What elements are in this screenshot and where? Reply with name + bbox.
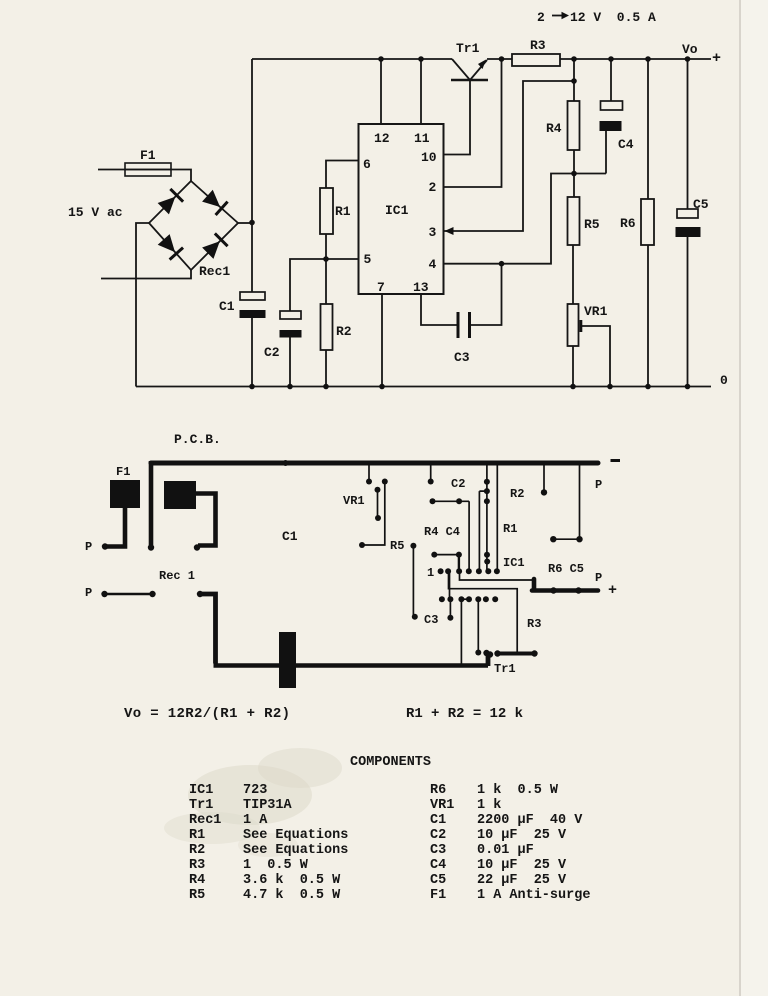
svg-text:6: 6	[363, 157, 371, 172]
svg-text:R2: R2	[510, 487, 524, 501]
svg-text:C1: C1	[430, 813, 446, 828]
node bridge+ junction	[249, 220, 255, 226]
node pin12 rail junction	[378, 56, 384, 62]
pcb pad P2 right	[149, 591, 155, 597]
svg-text:Rec1: Rec1	[189, 813, 221, 828]
svg-text:R1 + R2 = 12 k: R1 + R2 = 12 k	[406, 706, 523, 722]
label minus pcb	[611, 459, 621, 462]
pcb pad R5 left	[359, 542, 365, 548]
svg-text:10 μF 25 V: 10 μF 25 V	[477, 858, 567, 873]
svg-text:VR1: VR1	[430, 798, 454, 813]
bridge rectifier Rec1 diamond	[149, 181, 238, 270]
svg-text:1 k 0.5 W: 1 k 0.5 W	[477, 783, 559, 798]
wire R1 bottom to R2 top	[325, 234, 327, 304]
svg-text:1 A Anti-surge: 1 A Anti-surge	[477, 888, 590, 903]
svg-text:Tr1: Tr1	[189, 798, 213, 813]
wire pin3 to R3/R4 node	[444, 81, 575, 231]
wire pin10 to transistor base	[444, 80, 471, 155]
svg-text:Tr1: Tr1	[494, 662, 516, 676]
svg-text:10 μF 25 V: 10 μF 25 V	[477, 828, 567, 843]
wire left vertical from +rail to C1	[251, 59, 253, 292]
pcb line right P drop	[553, 463, 579, 539]
svg-text:P: P	[595, 478, 602, 492]
svg-text:IC1: IC1	[385, 203, 409, 218]
pcb pads plus trace	[550, 587, 556, 593]
pcb C1 strip	[279, 632, 296, 688]
pcb pad C2 bottom left	[430, 498, 436, 504]
svg-text:10: 10	[421, 150, 437, 165]
wire pin13 to C3 left	[421, 294, 457, 325]
node Vo junction	[685, 56, 691, 62]
pcb trace Rec1 to bottom rail	[200, 594, 216, 664]
svg-text:Rec 1: Rec 1	[159, 569, 195, 583]
fuse F1	[125, 163, 171, 176]
wire pin12 riser	[380, 59, 382, 124]
svg-text:R1: R1	[335, 204, 351, 219]
svg-text:15 V ac: 15 V ac	[68, 205, 123, 220]
svg-text:IC1: IC1	[189, 783, 213, 798]
svg-text:P: P	[595, 571, 602, 585]
resistor R3	[512, 54, 560, 66]
svg-text:Rec1: Rec1	[199, 264, 230, 279]
svg-text:2200 μF 40 V: 2200 μF 40 V	[477, 813, 583, 828]
svg-text:C1: C1	[282, 529, 298, 544]
svg-text:0: 0	[720, 373, 728, 388]
pcb line row2 to bottom rail	[460, 599, 462, 665]
pcb line R2 pad drop	[543, 463, 545, 492]
node C2 ground	[287, 384, 293, 390]
svg-text:12 V 0.5 A: 12 V 0.5 A	[570, 10, 656, 25]
resistor R2	[321, 304, 333, 350]
svg-text:R1: R1	[189, 828, 205, 843]
wire bridge right corner to C1 node	[238, 222, 252, 224]
junction dots	[249, 56, 690, 389]
pcb pad C2 top	[428, 479, 434, 485]
svg-text:2: 2	[537, 10, 545, 25]
svg-text:11: 11	[414, 131, 430, 146]
pcb pad P2 left	[101, 591, 107, 597]
svg-text:See Equations: See Equations	[243, 828, 348, 843]
wire 0 rail	[136, 386, 711, 388]
svg-text:13: 13	[413, 280, 429, 295]
pcb pad R2 hang	[541, 489, 547, 495]
svg-text:P: P	[85, 586, 92, 600]
diode D-bottomleft of Rec1	[157, 233, 184, 260]
wire R4 bottom to R5 top	[573, 150, 575, 197]
resistor R1	[320, 188, 333, 234]
node pin2 rail junction	[499, 56, 505, 62]
node R6 rail junction	[645, 56, 651, 62]
wire C5 risers	[687, 59, 689, 387]
svg-text:7: 7	[377, 280, 385, 295]
wire pin11 riser	[420, 59, 422, 124]
node C5 ground	[685, 384, 691, 390]
wire VR1 wiper to 0 rail	[582, 326, 610, 387]
svg-text:R3: R3	[189, 858, 205, 873]
svg-text:1 k: 1 k	[477, 798, 501, 813]
capacitor C4	[601, 101, 623, 110]
wire top +rail	[252, 58, 711, 60]
node VR1 ground	[570, 384, 576, 390]
pcb trace plus output	[532, 579, 598, 591]
wire pin6 to R1 top	[326, 161, 359, 189]
diode D-topright of Rec1	[201, 189, 228, 216]
svg-text:C4: C4	[430, 858, 446, 873]
wire AC input lower	[101, 270, 191, 279]
node pin11 rail junction	[418, 56, 424, 62]
pcb pads R2 column	[484, 479, 490, 485]
node pin7 ground	[379, 384, 385, 390]
node R3-R4 rail junction	[571, 56, 577, 62]
wire C4 top riser	[610, 59, 612, 101]
svg-text:VR1: VR1	[584, 304, 608, 319]
pcb component F1 square pad	[110, 480, 140, 508]
svg-text:4: 4	[429, 257, 437, 272]
svg-text:P: P	[85, 540, 92, 554]
pcb line row link	[449, 571, 451, 599]
pcb trace F1 to P pad	[106, 506, 125, 547]
wire pin4 to R4-R5 node	[444, 174, 607, 264]
svg-text:3: 3	[429, 225, 437, 240]
node C1 ground	[249, 384, 255, 390]
node wiper ground	[607, 384, 613, 390]
scan artifacts	[741, 0, 768, 996]
pcb line R2 column	[486, 463, 488, 571]
svg-text:C1: C1	[219, 299, 235, 314]
svg-text:COMPONENTS: COMPONENTS	[350, 755, 431, 770]
resistor R5	[568, 197, 580, 245]
node C4 rail junction	[608, 56, 614, 62]
svg-text:R4 C4: R4 C4	[424, 525, 460, 539]
wire R3 right / R4 top riser	[573, 59, 575, 101]
pcb pads IC row 2	[439, 596, 445, 602]
pcb line R1 drop	[496, 463, 498, 571]
svg-text:R5: R5	[390, 539, 404, 553]
wire bridge left corner to 0 rail	[136, 223, 149, 387]
pcb pad F1-P	[102, 543, 108, 549]
pcb pad Rec1 out	[197, 591, 203, 597]
svg-text:VR1: VR1	[343, 494, 365, 508]
pcb trace minus rail	[151, 461, 598, 466]
svg-text:C3: C3	[424, 613, 438, 627]
svg-text:1 A: 1 A	[243, 813, 268, 828]
svg-text:C4: C4	[618, 137, 634, 152]
pcb pad C3 left	[412, 614, 418, 620]
transistor Tr1	[451, 59, 488, 80]
pcb trace bottom rail	[214, 663, 489, 667]
wire pin2 riser to +rail	[444, 59, 502, 187]
pcb line VR1 right to R5 row	[362, 482, 385, 546]
svg-text:C3: C3	[430, 843, 446, 858]
svg-text:C2: C2	[451, 477, 465, 491]
wire R2 bottom to 0 rail	[325, 350, 327, 387]
capacitor C1	[240, 292, 265, 300]
pcb pad C2 bottom right	[456, 498, 462, 504]
wire C3 right to pin4 node	[471, 264, 502, 325]
pcb line step to R3	[449, 571, 518, 652]
pcb line C2 bottom pads	[433, 501, 470, 571]
svg-text:C2: C2	[430, 828, 446, 843]
wire C4 bottom drop	[605, 131, 607, 174]
wire VR1 bottom to 0 rail	[572, 346, 574, 387]
pcb trace bottom rail upturn to Tr1	[486, 654, 491, 667]
pcb trace Rec1 P link	[105, 593, 153, 596]
pcb pads Tr1	[475, 650, 481, 656]
pcb trace R3 link	[498, 652, 535, 656]
diode D-bottomright of Rec1	[201, 232, 228, 259]
svg-text:F1: F1	[116, 465, 130, 479]
pcb line row2 to Tr1 pad	[477, 599, 479, 652]
pcb square pad 2	[164, 481, 196, 509]
pcb pad right P pair	[550, 536, 556, 542]
svg-text:R3: R3	[530, 38, 546, 53]
svg-text:1: 1	[427, 566, 434, 580]
svg-text:R6 C5: R6 C5	[548, 562, 584, 576]
node R2 ground	[323, 384, 329, 390]
svg-text:C2: C2	[264, 345, 280, 360]
svg-text:R4: R4	[189, 873, 205, 888]
svg-text:R5: R5	[584, 217, 600, 232]
svg-text:R6: R6	[620, 216, 636, 231]
svg-text:IC1: IC1	[503, 556, 525, 570]
svg-text:R1: R1	[503, 522, 517, 536]
wire R5 bottom to VR1 top	[572, 245, 574, 304]
wire pin5 to C2	[290, 259, 359, 311]
pcb trace left drop from minus rail	[149, 461, 154, 546]
svg-text:+: +	[608, 582, 617, 599]
pin3 arrowhead	[445, 227, 454, 235]
components table left column	[189, 783, 348, 903]
capacitor C5	[677, 209, 698, 218]
pcb line VR1 top to rail	[368, 463, 370, 482]
pcb line C2 top to rail	[430, 463, 432, 482]
node pin4-C3 junction	[499, 261, 505, 267]
svg-text:C5: C5	[430, 873, 446, 888]
svg-text:R2: R2	[189, 843, 205, 858]
pcb line VR1 middle pads	[377, 490, 379, 518]
svg-text:5: 5	[364, 252, 372, 267]
svg-text:F1: F1	[140, 148, 156, 163]
pcb trace bridge in	[194, 494, 216, 546]
svg-text:+: +	[712, 50, 721, 67]
resistor R4	[568, 101, 580, 150]
svg-text:Tr1: Tr1	[456, 41, 480, 56]
svg-text:F1: F1	[430, 888, 446, 903]
wire R6 risers	[647, 59, 649, 387]
pcb pads R3	[494, 650, 500, 656]
svg-text:TIP31A: TIP31A	[243, 798, 293, 813]
svg-text:0.01 μF: 0.01 μF	[477, 843, 534, 858]
IC1 box	[359, 124, 444, 294]
pcb pads R4 pair	[431, 552, 437, 558]
pcb pad R5 right	[410, 543, 416, 549]
pcb line R2 column stub	[479, 491, 487, 571]
pcb pad left drop end	[148, 544, 154, 550]
svg-text:Vo: Vo	[682, 42, 698, 57]
svg-text:Vo = 12R2/(R1 + R2): Vo = 12R2/(R1 + R2)	[124, 706, 290, 722]
wire C2 bottom to 0 rail	[289, 337, 291, 387]
svg-text:12: 12	[374, 131, 390, 146]
node R6 ground	[645, 384, 651, 390]
svg-text:P.C.B.: P.C.B.	[174, 432, 221, 447]
pcb pad bridge-in end	[194, 544, 200, 550]
svg-text:R5: R5	[189, 888, 205, 903]
pcb line step to plus	[460, 571, 535, 580]
node R4-R5 junction	[571, 171, 577, 177]
potentiometer VR1	[568, 304, 579, 346]
svg-text:723: 723	[243, 783, 267, 798]
pcb line pad to pin row	[458, 555, 460, 572]
pcb line R4 pads link	[434, 554, 459, 556]
svg-text:C5: C5	[693, 197, 709, 212]
pcb pads VR1 cluster	[366, 479, 372, 485]
svg-text:R4: R4	[546, 121, 562, 136]
pcb pad on minus rail	[283, 460, 289, 466]
svg-text:R2: R2	[336, 324, 352, 339]
capacitor C2	[280, 311, 301, 319]
resistor R6	[641, 199, 654, 245]
pcb pads IC row 1	[438, 568, 444, 574]
svg-text:4.7 k 0.5 W: 4.7 k 0.5 W	[243, 888, 341, 903]
svg-text:2: 2	[429, 180, 437, 195]
diode D-topleft of Rec1	[157, 188, 184, 215]
pcb pad C3 right	[447, 615, 453, 621]
wire C1 bottom to 0 rail	[251, 318, 253, 387]
capacitor C3 plates	[457, 312, 460, 338]
wire pin7 to 0 rail	[381, 294, 383, 387]
svg-text:22 μF 25 V: 22 μF 25 V	[477, 873, 567, 888]
svg-text:R3: R3	[527, 617, 541, 631]
svg-text:See Equations: See Equations	[243, 843, 348, 858]
pcb line row2 pads link	[461, 598, 469, 600]
svg-text:1 0.5 W: 1 0.5 W	[243, 858, 309, 873]
svg-text:R6: R6	[430, 783, 446, 798]
wire AC input upper through fuse	[98, 170, 191, 182]
pcb line R5 to C3	[412, 546, 414, 617]
svg-text:3.6 k 0.5 W: 3.6 k 0.5 W	[243, 873, 341, 888]
pcb line C3 right riser	[449, 599, 451, 618]
components table right column	[430, 783, 590, 903]
node R1-R2-pin5 junction	[323, 256, 329, 262]
svg-text:C3: C3	[454, 350, 470, 365]
node R3-pin3 junction	[571, 78, 577, 84]
